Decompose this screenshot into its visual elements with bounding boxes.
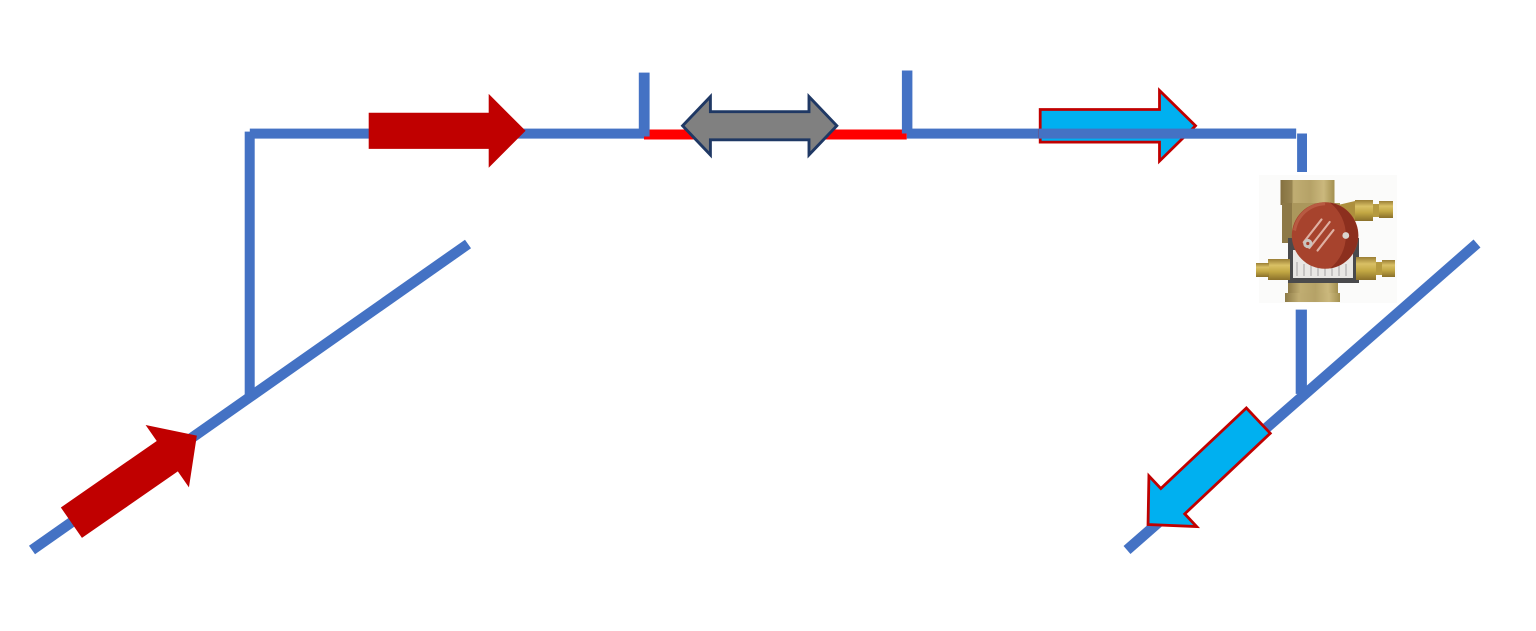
wire: top horizontal pipe right blue segment xyxy=(907,129,1296,139)
valve bottom port xyxy=(1288,282,1338,296)
node: stub branch 2 (vertical blue stub at right end of red segment) xyxy=(902,71,913,134)
valve knob screw circle xyxy=(1303,239,1312,248)
valve lower-right fitting xyxy=(1356,257,1395,280)
valve central dark frame xyxy=(1288,238,1359,283)
valve top brass port xyxy=(1281,180,1335,205)
arrow: top red flow arrow pointing right xyxy=(369,94,526,168)
valve: thermostatic mixing valve photo xyxy=(1256,175,1397,303)
valve photo background xyxy=(1259,175,1397,303)
wire: red hot segment on top pipe xyxy=(644,130,907,140)
arrow: bottom-left red flow arrow pointing up-right xyxy=(50,404,219,553)
arrow: bottom-right cyan flow arrow pointing down-left xyxy=(1124,395,1282,550)
valve knob white dot xyxy=(1342,232,1349,239)
wire: right vertical drop lower (below valve) xyxy=(1296,310,1307,394)
valve body brass behind knob xyxy=(1282,203,1340,243)
wire: left diagonal pipe (cold supply lower-left) xyxy=(32,244,468,550)
wire: blue pipe overlay on cyan arrow (pipe drawn above arrow) xyxy=(1039,129,1296,139)
valve lower-left fitting xyxy=(1268,259,1290,280)
wire: left vertical riser xyxy=(245,132,255,399)
wire: right vertical drop upper (above valve) xyxy=(1297,134,1307,173)
arrow: gray double-headed arrow (mixing zone) xyxy=(683,97,837,155)
node: stub branch 1 (vertical blue stub over red segment) xyxy=(639,73,650,137)
valve white label scale xyxy=(1293,250,1353,278)
valve red knob xyxy=(1292,202,1359,269)
wire: right diagonal pipe (lower-right) xyxy=(1127,244,1477,551)
valve upper-right fitting xyxy=(1338,200,1393,221)
wire: top horizontal pipe left blue segment xyxy=(250,129,644,139)
arrow: top cyan flow arrow pointing right (under pipe) xyxy=(1040,91,1195,162)
